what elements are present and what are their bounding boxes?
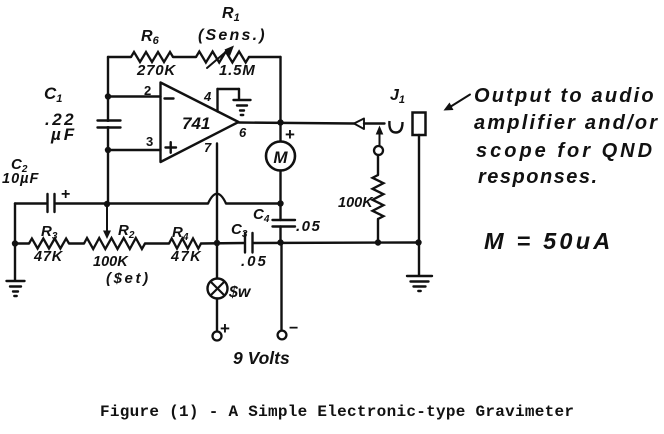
svg-text:100K: 100K (338, 195, 374, 211)
node output-feedback junction (277, 119, 283, 125)
R2 set label (106, 270, 151, 287)
svg-text:4: 4 (203, 89, 212, 104)
wire op-amp output (239, 123, 355, 124)
battery minus label (289, 320, 298, 337)
wire meter to node (279, 171, 281, 204)
battery plus terminal (213, 332, 222, 341)
R2 wiper arrow (103, 206, 111, 239)
svg-text:responses.: responses. (478, 166, 599, 188)
node pin2-C1 junction (105, 93, 111, 99)
svg-text:R1: R1 (222, 5, 240, 24)
svg-text:R6: R6 (141, 28, 160, 47)
R3 label (41, 223, 58, 242)
svg-text:C3: C3 (231, 221, 248, 240)
battery plus label (220, 319, 230, 338)
svg-text:($et): ($et) (106, 270, 151, 287)
annotation line 4 (478, 166, 599, 188)
wire pin 4 (218, 89, 240, 112)
svg-text:100K: 100K (93, 254, 129, 270)
C1 label (44, 84, 62, 105)
jack J1 body (413, 113, 426, 136)
wire pin 3 (108, 149, 161, 151)
op-amp non-inverting input plus sign (166, 142, 177, 153)
wire output to meter (279, 123, 281, 142)
capacitor C1 (98, 121, 121, 128)
C2 value label (2, 171, 39, 187)
plug tip symbol (354, 119, 364, 130)
svg-text:9 Volts: 9 Volts (233, 348, 290, 368)
C1 unit label (50, 125, 77, 144)
svg-text:7: 7 (204, 140, 212, 155)
svg-text:.05: .05 (241, 253, 268, 270)
annotation line 3 (476, 140, 655, 162)
capacitor C3 (245, 233, 253, 253)
node bus jack junction (415, 239, 421, 245)
resistor R5 100K (373, 175, 384, 219)
svg-text:1.5M: 1.5M (219, 62, 256, 79)
svg-text:270K: 270K (136, 62, 176, 79)
node bus 100K junction (375, 239, 381, 245)
wire feedback vertical (279, 57, 281, 123)
jack tip arrow (376, 126, 384, 147)
node bus pin7 junction (214, 240, 220, 246)
jack terminal circle (374, 146, 383, 155)
wire to left ground (14, 244, 16, 281)
svg-text:amplifier and/or: amplifier and/or (474, 112, 659, 134)
ground left (7, 281, 25, 296)
R5 value label (338, 195, 374, 211)
wire top feedback rail (108, 56, 281, 58)
node bus left junction (12, 240, 18, 246)
svg-text:.05: .05 (296, 218, 321, 235)
lamp-switch SW (208, 279, 228, 299)
svg-text:+: + (61, 186, 70, 203)
op-amp 741 label (182, 114, 210, 133)
R3 value label (33, 249, 64, 265)
resistor R4 (169, 239, 201, 249)
meter plus label (285, 125, 295, 144)
C4 value label (296, 218, 321, 235)
R4 label (172, 224, 189, 243)
svg-text:741: 741 (182, 114, 210, 133)
wire bus to switch (216, 243, 218, 279)
svg-text:6: 6 (239, 125, 247, 140)
C1 value label (45, 110, 76, 129)
C3 value label (241, 253, 268, 270)
potentiometer R2 (84, 238, 145, 249)
pin 6 label (239, 125, 247, 140)
ground op-amp pin4 (234, 100, 251, 115)
SW label (228, 284, 252, 301)
wire jack body down (418, 135, 420, 243)
svg-text:R3: R3 (41, 223, 58, 242)
figure caption (100, 403, 574, 421)
pin 7 label (204, 140, 212, 155)
svg-text:M: M (273, 148, 288, 167)
R2 label (118, 222, 135, 241)
meter rating note (484, 228, 613, 254)
wire pin 2 (108, 95, 161, 97)
wire node to C4 (279, 204, 281, 221)
svg-text:$w: $w (228, 284, 252, 301)
pin 4 label (203, 89, 212, 104)
C2 plus label (61, 186, 70, 203)
svg-text:M = 50uA: M = 50uA (484, 228, 613, 254)
R2 value label (93, 254, 129, 270)
wire jack tip lever (364, 122, 385, 124)
svg-text:µF: µF (50, 125, 77, 144)
wire left vertical (107, 57, 109, 204)
battery minus terminal (278, 331, 287, 340)
svg-text:scope for QND: scope for QND (476, 140, 655, 162)
svg-text:Output to audio: Output to audio (474, 85, 656, 107)
annotation arrow (444, 95, 471, 111)
annotation line 2 (474, 112, 659, 134)
node bus C4 junction (277, 239, 283, 245)
C4 label (253, 206, 270, 225)
pin 3 label (146, 134, 153, 149)
svg-text:(Sens.): (Sens.) (198, 27, 267, 44)
svg-text:+: + (285, 125, 295, 144)
svg-text:J1: J1 (390, 87, 405, 106)
wire terminal to 100K (377, 155, 379, 175)
R1 value label (219, 62, 256, 79)
svg-text:+: + (220, 319, 230, 338)
resistor R6 (131, 52, 173, 62)
ground right (407, 276, 432, 291)
R6 label (141, 28, 160, 47)
svg-text:C1: C1 (44, 84, 62, 105)
capacitor C2 (48, 194, 55, 212)
wire pin 7 vertical (216, 144, 218, 244)
battery value label (233, 348, 290, 368)
wire bottom bus (15, 243, 418, 244)
pin 2 label (144, 83, 151, 98)
resistor R3 (29, 239, 69, 249)
R4 value label (170, 249, 202, 265)
wire left rail drop (14, 204, 16, 244)
wire C4 to bus (279, 227, 281, 243)
R6 value label (136, 62, 176, 79)
wire switch to battery plus (216, 299, 218, 332)
jack sleeve hook (389, 121, 402, 133)
potentiometer R1 (196, 52, 249, 63)
R1 name label (198, 27, 267, 44)
svg-text:C4: C4 (253, 206, 270, 225)
meter M1 (266, 142, 295, 171)
svg-text:3: 3 (146, 134, 153, 149)
wire mid rail with hop (15, 194, 281, 204)
wire to right ground (418, 243, 420, 276)
capacitor C4 (273, 220, 296, 227)
svg-text:10µF: 10µF (2, 171, 39, 187)
svg-text:R2: R2 (118, 222, 135, 241)
J1 label (390, 87, 405, 106)
svg-text:47K: 47K (33, 249, 64, 265)
C2 label (11, 156, 28, 175)
R1 label (222, 5, 240, 24)
svg-text:R4: R4 (172, 224, 189, 243)
node meter-C4-wiper junction (277, 200, 283, 206)
op-amp U1 741 triangle (161, 83, 239, 163)
op-amp inverting input minus sign (165, 97, 174, 99)
svg-text:Figure (1) - A Simple Electron: Figure (1) - A Simple Electronic-type Gr… (100, 403, 574, 421)
C3 label (231, 221, 248, 240)
wire bus to battery minus (280, 243, 282, 331)
wire 100K to bus (377, 219, 379, 243)
R1 wiper arrow (207, 46, 234, 69)
annotation line 1 (474, 85, 656, 107)
svg-text:47K: 47K (170, 249, 202, 265)
node mid rail - wiper junction (104, 201, 110, 207)
node pin3-C1 junction (105, 147, 111, 153)
svg-text:−: − (289, 320, 298, 337)
